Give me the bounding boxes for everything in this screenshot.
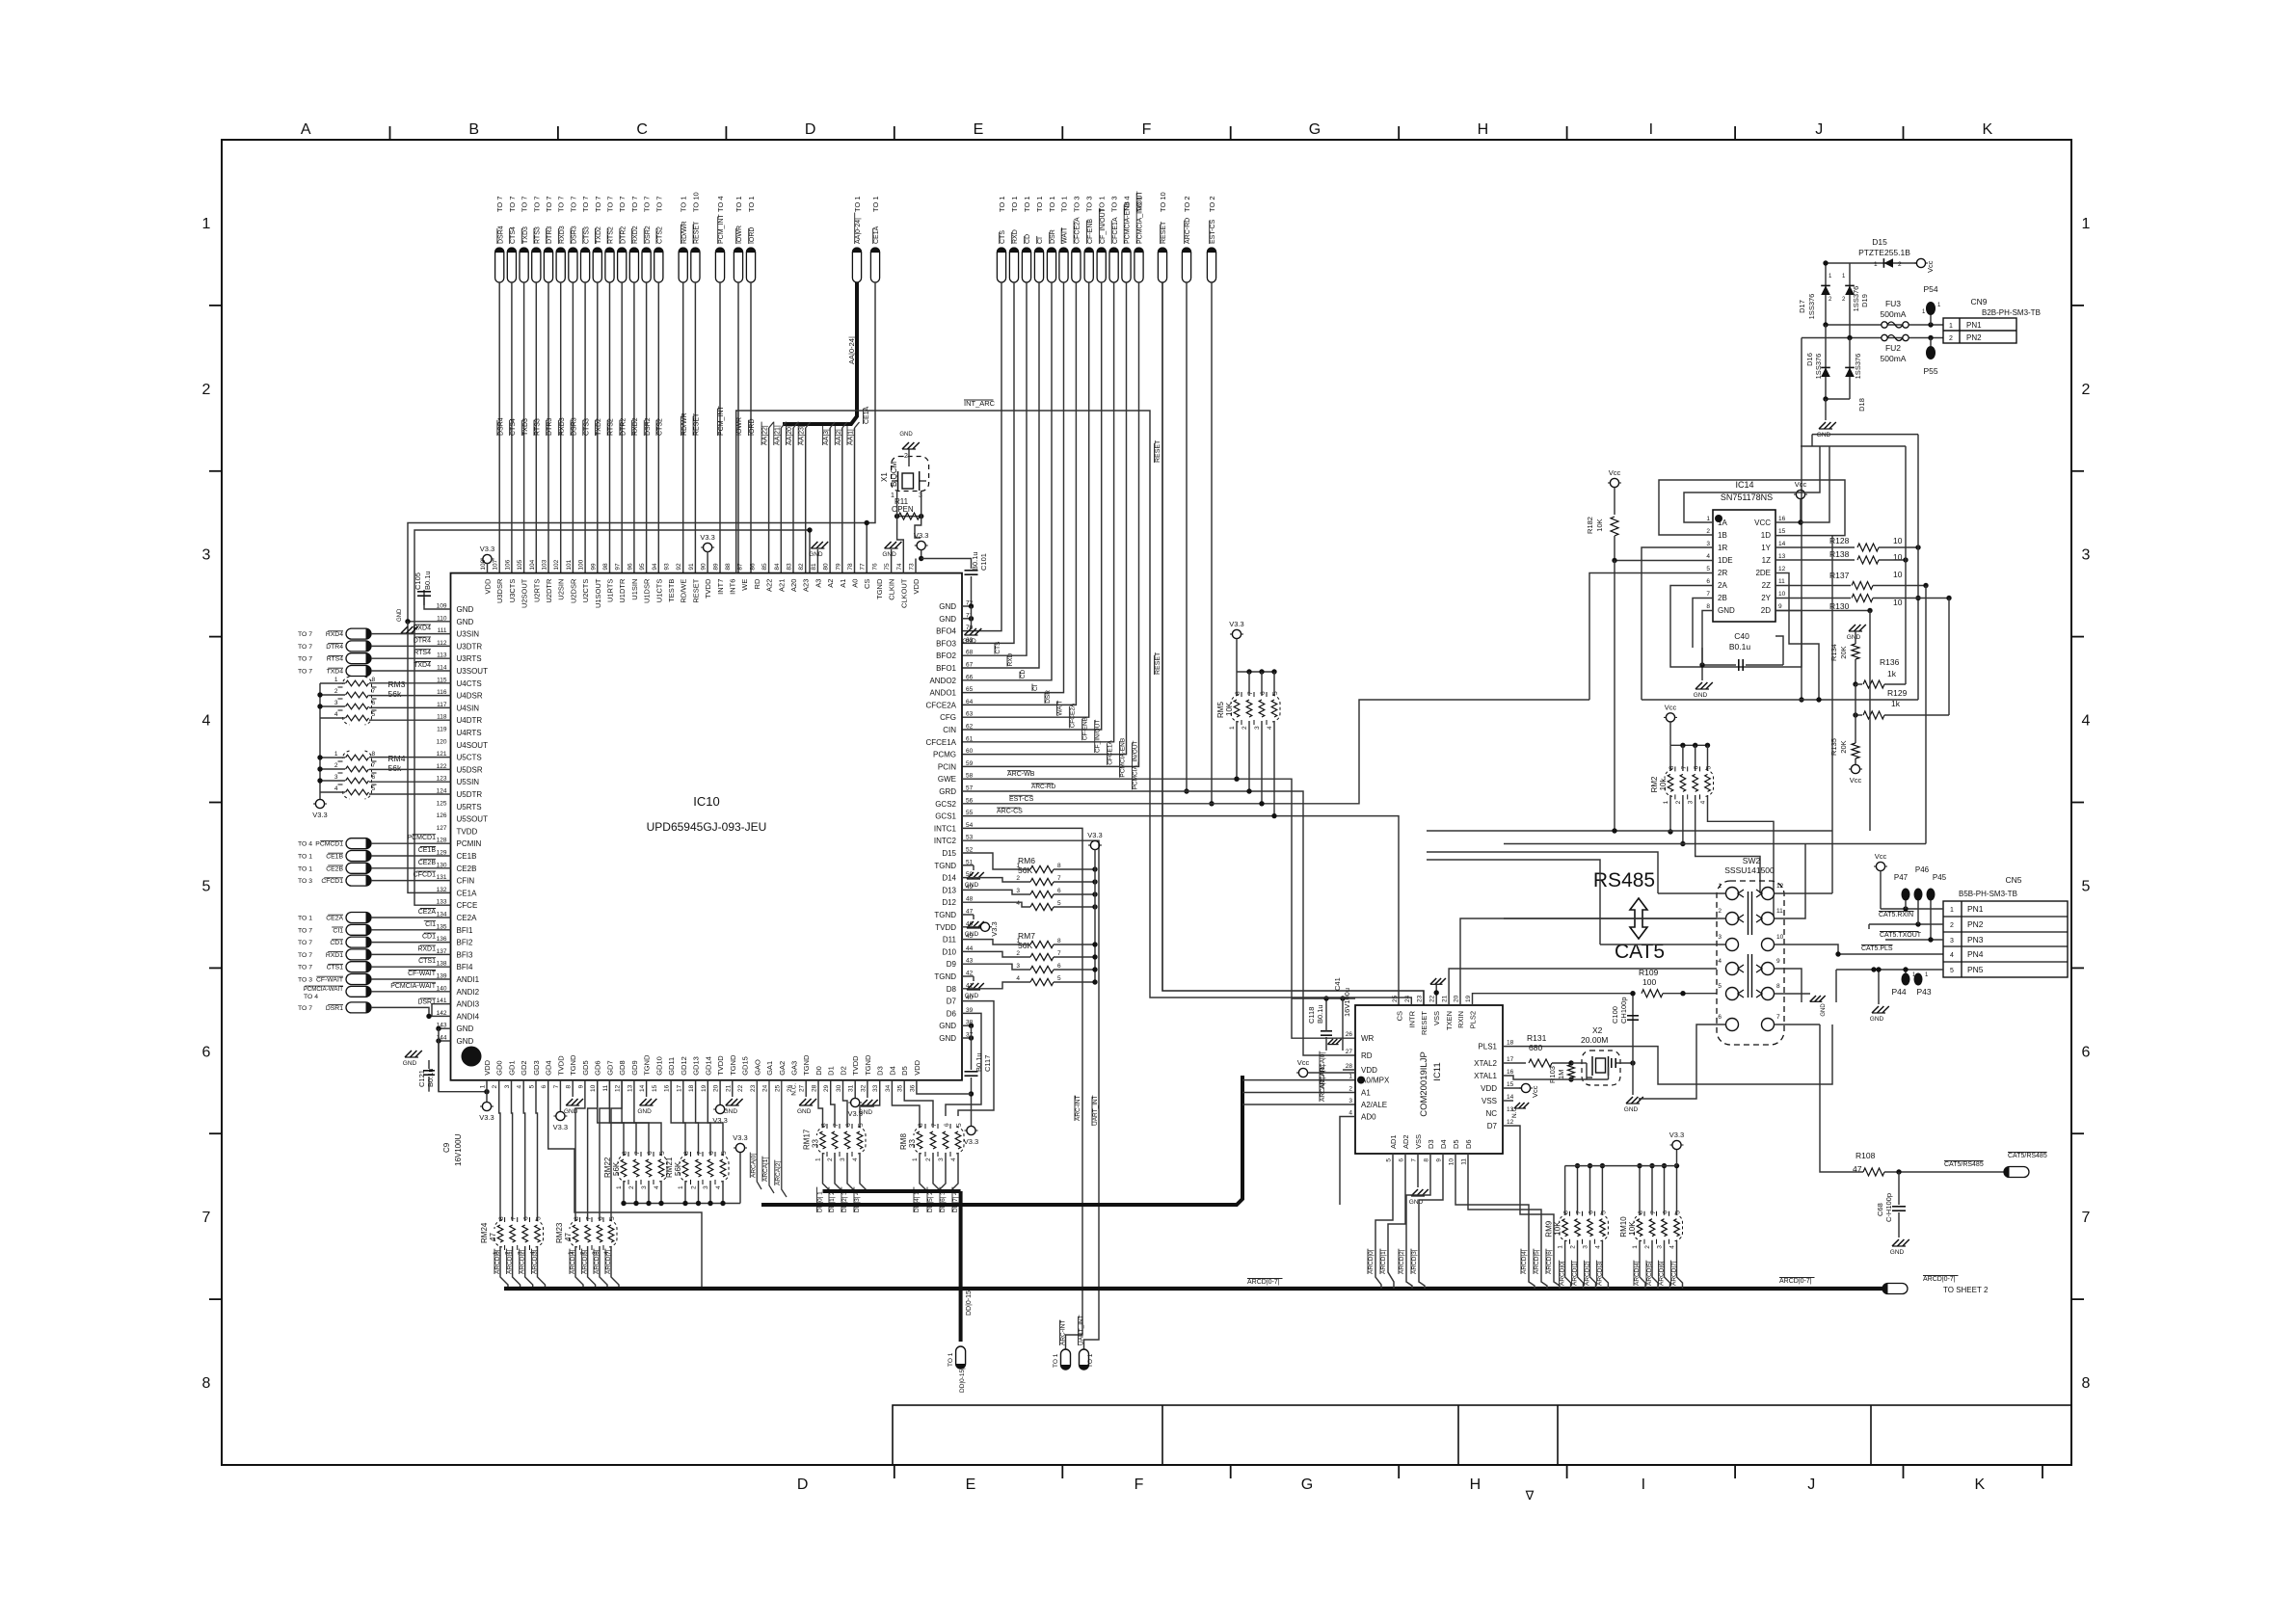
svg-text:3: 3 bbox=[1016, 963, 1020, 970]
title block bbox=[893, 1405, 2071, 1465]
wire CN5 PN1 bbox=[1881, 908, 1943, 910]
power VCC below R135 bbox=[1851, 764, 1859, 773]
ground below X2 caps bbox=[1626, 1097, 1633, 1104]
wire D15-D12 to RM6 bbox=[962, 853, 1030, 869]
wire bbox=[499, 1080, 500, 1221]
svg-text:4: 4 bbox=[654, 1185, 660, 1189]
svg-text:3: 3 bbox=[202, 547, 211, 564]
svg-text:CAT5/RS485: CAT5/RS485 bbox=[1944, 1161, 1984, 1168]
svg-text:U1CTS: U1CTS bbox=[654, 579, 663, 603]
svg-text:47: 47 bbox=[564, 1233, 573, 1241]
svg-text:TO 7: TO 7 bbox=[654, 196, 663, 212]
svg-text:11: 11 bbox=[1778, 578, 1785, 585]
power V3.3 at pin 46 TVDD bbox=[962, 926, 979, 928]
svg-text:3: 3 bbox=[504, 1084, 511, 1088]
ground right of SW2 row5 bbox=[1810, 996, 1816, 1001]
node P55 bbox=[1926, 346, 1936, 359]
svg-text:64: 64 bbox=[966, 699, 974, 705]
svg-text:1DE: 1DE bbox=[1718, 556, 1733, 565]
svg-text:D16: D16 bbox=[1805, 353, 1814, 366]
ground at IC11 pin 7 VSS bbox=[1417, 1154, 1419, 1187]
svg-text:TO 7: TO 7 bbox=[298, 669, 312, 676]
svg-text:94: 94 bbox=[652, 563, 658, 571]
svg-text:TO 1: TO 1 bbox=[853, 196, 862, 212]
svg-text:TO 4: TO 4 bbox=[298, 841, 312, 848]
svg-text:GD12: GD12 bbox=[680, 1056, 688, 1076]
svg-text:Vcc: Vcc bbox=[1665, 703, 1677, 711]
wire GD4 long route bbox=[548, 1080, 702, 1289]
svg-text:R135: R135 bbox=[1829, 738, 1838, 756]
svg-text:CFCE2A: CFCE2A bbox=[1075, 217, 1081, 244]
svg-text:CF_IN/OUT: CF_IN/OUT bbox=[1095, 720, 1102, 753]
svg-text:GND: GND bbox=[882, 551, 896, 558]
node CE2B stub (TO 1) bbox=[346, 863, 371, 873]
svg-text:AA|0-24|: AA|0-24| bbox=[847, 336, 856, 364]
svg-text:GD1: GD1 bbox=[508, 1060, 517, 1075]
svg-text:PCMCD1: PCMCD1 bbox=[315, 841, 343, 848]
svg-text:DSR3: DSR3 bbox=[572, 417, 578, 436]
svg-text:8: 8 bbox=[1235, 691, 1241, 695]
svg-text:105: 105 bbox=[517, 559, 523, 570]
svg-text:4: 4 bbox=[1718, 958, 1722, 965]
svg-text:B0.1u: B0.1u bbox=[971, 551, 979, 571]
wire RM2 col4 bbox=[1708, 795, 1775, 918]
svg-text:100: 100 bbox=[578, 559, 585, 570]
svg-text:2: 2 bbox=[925, 1157, 932, 1161]
svg-text:96: 96 bbox=[627, 563, 633, 571]
svg-text:∇: ∇ bbox=[1525, 1488, 1535, 1503]
wire bbox=[371, 917, 451, 918]
svg-text:ARCA|1|: ARCA|1| bbox=[762, 1157, 769, 1182]
capacitor C105 B0.1u bbox=[424, 590, 451, 609]
svg-text:GD7: GD7 bbox=[605, 1060, 614, 1075]
wire X1 pin1 to CLKIN bbox=[896, 491, 898, 517]
svg-text:23: 23 bbox=[1417, 995, 1424, 1002]
svg-text:GD0: GD0 bbox=[495, 1060, 504, 1075]
svg-text:CTS2: CTS2 bbox=[657, 418, 664, 436]
svg-text:D4: D4 bbox=[888, 1066, 896, 1076]
svg-text:4: 4 bbox=[1669, 1245, 1676, 1249]
svg-text:2A: 2A bbox=[1718, 581, 1727, 590]
svg-text:RM10: RM10 bbox=[1619, 1216, 1628, 1237]
svg-text:19: 19 bbox=[701, 1084, 707, 1092]
svg-text:1: 1 bbox=[1706, 516, 1710, 522]
wire ARCA2 to IC11 A2 bbox=[1242, 1104, 1355, 1105]
svg-text:SSSU141500: SSSU141500 bbox=[1724, 865, 1775, 875]
svg-text:19: 19 bbox=[1465, 995, 1472, 1002]
svg-text:RTS2: RTS2 bbox=[608, 418, 615, 436]
node CFCE1A off-page stub (TO 3) bbox=[1109, 248, 1118, 282]
wire GRD / ARC-RD to IC11 RD bbox=[962, 791, 1355, 1055]
node CF-WAIT stub (TO 3) bbox=[346, 974, 371, 985]
svg-text:84: 84 bbox=[774, 563, 781, 571]
svg-text:1Y: 1Y bbox=[1761, 544, 1771, 552]
svg-text:ANDI1: ANDI1 bbox=[457, 975, 480, 984]
svg-text:2: 2 bbox=[1241, 726, 1248, 730]
node RXD off-page stub (TO 1) bbox=[1009, 248, 1018, 282]
node CE1A off-page stub (TO 1) bbox=[870, 248, 879, 282]
svg-text:15: 15 bbox=[1778, 528, 1786, 535]
wire DD(0) bbox=[823, 1153, 831, 1191]
svg-text:TO 7: TO 7 bbox=[298, 940, 312, 946]
wire bbox=[622, 1080, 649, 1156]
svg-text:6: 6 bbox=[845, 1123, 852, 1127]
svg-text:CTS3: CTS3 bbox=[583, 226, 590, 244]
svg-text:93: 93 bbox=[664, 563, 671, 571]
svg-text:TO 1: TO 1 bbox=[871, 196, 880, 212]
svg-text:11: 11 bbox=[602, 1084, 609, 1091]
resistor network RM9 10K bbox=[1562, 1219, 1568, 1237]
svg-text:89: 89 bbox=[712, 563, 719, 571]
svg-text:GND: GND bbox=[797, 1108, 812, 1115]
svg-text:RXIN: RXIN bbox=[1456, 1011, 1465, 1028]
svg-text:13: 13 bbox=[1778, 553, 1786, 560]
svg-text:RXD3: RXD3 bbox=[559, 417, 566, 436]
wire EST-CS bbox=[1211, 282, 1213, 804]
wire 1D to SW2 row12 bbox=[1831, 536, 1833, 831]
svg-text:76: 76 bbox=[871, 563, 878, 571]
svg-text:GD4: GD4 bbox=[545, 1060, 553, 1075]
svg-text:VDD: VDD bbox=[484, 578, 493, 594]
svg-text:12: 12 bbox=[1778, 566, 1786, 572]
svg-text:TO 1: TO 1 bbox=[998, 196, 1006, 212]
svg-text:2: 2 bbox=[1644, 1245, 1651, 1249]
svg-text:TGND: TGND bbox=[569, 1054, 577, 1076]
svg-text:TVDD: TVDD bbox=[704, 578, 712, 599]
svg-text:5: 5 bbox=[721, 1151, 728, 1155]
wire bbox=[646, 282, 648, 573]
bus ARCA(0-2) bbox=[757, 1080, 761, 1189]
svg-text:F: F bbox=[1135, 1477, 1144, 1493]
wire RM2 col3 bbox=[1695, 795, 1760, 893]
wire bbox=[588, 1080, 598, 1221]
wire SW2 centre bars bbox=[1748, 891, 1749, 935]
svg-text:RXD2: RXD2 bbox=[632, 226, 639, 244]
svg-text:C-H100p: C-H100p bbox=[1884, 1193, 1893, 1222]
svg-text:TO 7: TO 7 bbox=[643, 196, 652, 212]
svg-text:GND: GND bbox=[1624, 1106, 1639, 1113]
svg-text:8: 8 bbox=[1057, 938, 1061, 945]
svg-text:DTR2: DTR2 bbox=[620, 418, 627, 436]
wire crystal ground leg bbox=[1632, 994, 1634, 1095]
svg-text:A2: A2 bbox=[826, 579, 835, 588]
svg-text:25: 25 bbox=[774, 1084, 781, 1092]
svg-text:PLS2: PLS2 bbox=[1469, 1011, 1478, 1028]
svg-text:GND: GND bbox=[939, 1022, 956, 1030]
svg-text:U5CTS: U5CTS bbox=[457, 754, 482, 762]
power V3.3 for RM22/RM21 bbox=[735, 1143, 744, 1152]
wire bbox=[371, 953, 451, 955]
svg-text:I: I bbox=[1649, 121, 1653, 138]
svg-text:TO 7: TO 7 bbox=[298, 644, 312, 651]
svg-text:22: 22 bbox=[737, 1084, 744, 1092]
svg-text:5: 5 bbox=[1718, 983, 1722, 990]
svg-text:1: 1 bbox=[1016, 863, 1020, 869]
svg-text:V3.3: V3.3 bbox=[964, 1137, 978, 1146]
svg-text:V3.3: V3.3 bbox=[1229, 620, 1243, 628]
svg-text:1: 1 bbox=[334, 677, 338, 683]
svg-text:3: 3 bbox=[1706, 541, 1710, 547]
resistor network RM5 10K bbox=[1232, 629, 1241, 638]
svg-text:1: 1 bbox=[1632, 1245, 1639, 1249]
svg-text:CTS2: CTS2 bbox=[657, 226, 664, 244]
svg-text:C118: C118 bbox=[1307, 1007, 1316, 1024]
wire SW2 row11/12 right bbox=[1775, 844, 1806, 919]
wire bbox=[1676, 1166, 1678, 1215]
svg-text:AA|2|: AA|2| bbox=[836, 429, 842, 445]
svg-text:27: 27 bbox=[1346, 1049, 1353, 1055]
wire AD0 to bus bbox=[1340, 1117, 1355, 1206]
svg-text:10: 10 bbox=[1893, 598, 1903, 607]
wire ARC-RD bbox=[1186, 282, 1188, 791]
svg-text:10: 10 bbox=[1449, 1158, 1455, 1166]
svg-text:GD13: GD13 bbox=[692, 1056, 701, 1076]
svg-text:ARC-RD: ARC-RD bbox=[1031, 784, 1056, 790]
svg-text:TO 1: TO 1 bbox=[1060, 196, 1069, 212]
svg-text:2: 2 bbox=[1016, 950, 1020, 957]
wire RXIN bbox=[1460, 918, 1717, 1005]
svg-text:4: 4 bbox=[715, 1185, 722, 1189]
svg-text:5: 5 bbox=[1675, 1211, 1682, 1214]
svg-text:TO 3: TO 3 bbox=[298, 878, 312, 885]
svg-text:ARCD|5|: ARCD|5| bbox=[582, 1249, 589, 1274]
wire CF_IN/OUT bbox=[962, 282, 1102, 730]
svg-text:CAT5/RS485: CAT5/RS485 bbox=[2008, 1153, 2047, 1159]
svg-text:INTR: INTR bbox=[1407, 1010, 1416, 1027]
svg-text:2R: 2R bbox=[1718, 569, 1727, 577]
wire DD(5) bbox=[933, 1153, 941, 1191]
svg-text:ARCD|2|: ARCD|2| bbox=[1585, 1261, 1591, 1286]
wire bbox=[511, 282, 513, 573]
capacitor C117 B0.1u bbox=[965, 1071, 978, 1073]
svg-text:10K: 10K bbox=[1225, 702, 1234, 716]
wire GND pins 72/71 bbox=[962, 605, 972, 607]
svg-text:127: 127 bbox=[437, 825, 447, 832]
wire GND rail to V3.3 at pin1 bbox=[439, 1041, 487, 1092]
svg-text:TO 7: TO 7 bbox=[581, 196, 590, 212]
power VCC at IC14 bbox=[1796, 490, 1804, 498]
wire ARCD(5) bbox=[588, 1246, 596, 1289]
svg-text:CE1B: CE1B bbox=[457, 852, 477, 861]
wire bbox=[1577, 1166, 1579, 1215]
svg-text:78: 78 bbox=[847, 563, 854, 571]
svg-text:TO 1: TO 1 bbox=[298, 865, 312, 872]
svg-text:D15: D15 bbox=[942, 849, 956, 858]
svg-text:H: H bbox=[1478, 121, 1489, 138]
svg-text:INTC2: INTC2 bbox=[934, 837, 957, 845]
svg-text:GND: GND bbox=[1718, 606, 1735, 615]
svg-text:RD/WE: RD/WE bbox=[680, 579, 688, 603]
svg-text:ARC-WB: ARC-WB bbox=[1007, 771, 1035, 778]
svg-text:7: 7 bbox=[1681, 765, 1688, 769]
svg-text:CFCE2A: CFCE2A bbox=[1069, 703, 1076, 728]
svg-text:4: 4 bbox=[1016, 975, 1020, 982]
svg-text:8: 8 bbox=[202, 1375, 211, 1392]
svg-text:B5B-PH-SM3-TB: B5B-PH-SM3-TB bbox=[1959, 890, 2017, 898]
svg-text:P44: P44 bbox=[1891, 987, 1906, 997]
svg-text:20K: 20K bbox=[1839, 740, 1848, 753]
wire ARCD(3) bbox=[538, 1246, 546, 1289]
svg-text:10K: 10K bbox=[1554, 1221, 1562, 1236]
svg-text:8: 8 bbox=[574, 1216, 580, 1220]
svg-text:100: 100 bbox=[1642, 977, 1656, 987]
svg-text:R134: R134 bbox=[1829, 644, 1838, 661]
svg-text:81: 81 bbox=[811, 563, 817, 571]
svg-text:U3SIN: U3SIN bbox=[457, 630, 480, 639]
node DSR1 stub (TO 7) bbox=[346, 1002, 371, 1013]
node DTR3 off-page stub (TO 7) bbox=[544, 248, 552, 282]
svg-text:ARCD|0-7|: ARCD|0-7| bbox=[1247, 1279, 1280, 1286]
svg-text:RXD1: RXD1 bbox=[417, 945, 436, 952]
svg-text:RM17: RM17 bbox=[803, 1129, 812, 1150]
svg-text:PLS1: PLS1 bbox=[1478, 1043, 1497, 1051]
svg-text:X1: X1 bbox=[880, 472, 889, 482]
svg-text:TO 7: TO 7 bbox=[298, 927, 312, 934]
svg-text:18: 18 bbox=[1507, 1040, 1514, 1047]
svg-text:126: 126 bbox=[437, 812, 447, 819]
wire bbox=[371, 966, 451, 968]
wire bbox=[1639, 1166, 1641, 1215]
svg-text:4: 4 bbox=[1267, 726, 1273, 730]
wire RM5 pulldowns to control nets bbox=[1236, 721, 1238, 779]
svg-text:TO 7: TO 7 bbox=[508, 196, 517, 212]
svg-text:GND: GND bbox=[457, 605, 474, 614]
wire VDD pin36 bbox=[917, 1080, 972, 1094]
svg-text:7: 7 bbox=[1057, 950, 1061, 957]
svg-text:D5: D5 bbox=[1452, 1139, 1460, 1149]
svg-text:GND: GND bbox=[962, 638, 976, 645]
svg-text:33: 33 bbox=[908, 1139, 917, 1148]
svg-text:GND: GND bbox=[939, 1034, 956, 1043]
svg-text:RM4: RM4 bbox=[388, 754, 406, 763]
wire diode commons bbox=[1826, 398, 1850, 400]
svg-text:D2: D2 bbox=[840, 1066, 848, 1076]
svg-text:V3.3: V3.3 bbox=[480, 545, 494, 553]
svg-text:6: 6 bbox=[1694, 765, 1700, 769]
svg-text:RXD4: RXD4 bbox=[413, 625, 431, 632]
svg-text:CTS3: CTS3 bbox=[583, 418, 590, 436]
svg-text:3: 3 bbox=[1348, 1098, 1352, 1104]
svg-text:PCMIN: PCMIN bbox=[457, 839, 482, 848]
svg-text:U5SIN: U5SIN bbox=[457, 778, 480, 786]
wire bbox=[371, 1007, 451, 1016]
svg-text:16V100U: 16V100U bbox=[454, 1133, 463, 1166]
svg-text:1: 1 bbox=[1016, 938, 1020, 945]
ground GND at IC10 pins 109/110 bbox=[408, 621, 451, 623]
svg-text:62: 62 bbox=[966, 724, 974, 731]
svg-text:CD: CD bbox=[1025, 234, 1031, 244]
svg-text:98: 98 bbox=[602, 563, 609, 571]
svg-text:4: 4 bbox=[334, 711, 338, 718]
wire ARCD(2) bbox=[525, 1246, 533, 1289]
power V3.3 at pin 20 TVDD bbox=[719, 1080, 721, 1104]
svg-text:7: 7 bbox=[2082, 1210, 2091, 1226]
wire SW2 row4/5/6 right bbox=[1775, 969, 1802, 1002]
svg-text:DSR4: DSR4 bbox=[497, 417, 504, 436]
wire CFCE2A bbox=[962, 282, 1076, 705]
wire ARCD(4) bbox=[575, 1246, 583, 1289]
svg-text:CFCE1A: CFCE1A bbox=[925, 738, 956, 747]
svg-text:PCMCIA-WAIT: PCMCIA-WAIT bbox=[390, 983, 437, 990]
svg-text:101: 101 bbox=[566, 559, 573, 570]
svg-text:N.C.: N.C. bbox=[791, 1083, 798, 1096]
svg-text:3: 3 bbox=[840, 1157, 846, 1161]
wire CI bbox=[962, 282, 1039, 668]
node DSR2 off-page stub (TO 7) bbox=[642, 248, 651, 282]
svg-text:A3: A3 bbox=[814, 579, 822, 588]
svg-text:6: 6 bbox=[372, 774, 376, 781]
svg-text:CFCE1A: CFCE1A bbox=[1108, 739, 1114, 764]
svg-text:RXD3: RXD3 bbox=[559, 226, 566, 244]
svg-text:CFCE2A: CFCE2A bbox=[925, 701, 956, 709]
node ARC-INT off-page stub (TO 1) bbox=[1061, 1349, 1071, 1370]
node CF-ENB off-page stub (TO 3) bbox=[1084, 248, 1093, 282]
svg-text:18: 18 bbox=[688, 1084, 695, 1092]
svg-text:DTR2: DTR2 bbox=[620, 226, 627, 244]
resistor network RM10 10K bbox=[1637, 1219, 1642, 1237]
svg-text:TO 1: TO 1 bbox=[734, 196, 743, 212]
svg-text:PCIN: PCIN bbox=[938, 762, 956, 771]
svg-text:ARCD|3|: ARCD|3| bbox=[1411, 1249, 1418, 1274]
svg-text:2: 2 bbox=[1949, 335, 1953, 342]
power VCC right of D15 bbox=[1916, 258, 1925, 267]
svg-text:B0.1u: B0.1u bbox=[1729, 642, 1750, 652]
svg-text:3: 3 bbox=[641, 1185, 648, 1189]
svg-text:D3: D3 bbox=[1427, 1139, 1435, 1149]
svg-text:BFI1: BFI1 bbox=[457, 926, 473, 935]
svg-text:6: 6 bbox=[1399, 1158, 1405, 1162]
wire 1A loop bbox=[1684, 446, 1820, 522]
svg-text:RM24: RM24 bbox=[480, 1222, 489, 1243]
wire RM6 commons to V3.3 rail bbox=[1054, 868, 1095, 870]
svg-text:28: 28 bbox=[812, 1084, 818, 1092]
wire SW2 row10 to CN5 PN4 bbox=[1775, 945, 1944, 954]
wire 2D bbox=[1775, 610, 1870, 612]
svg-text:CTS4: CTS4 bbox=[510, 226, 517, 244]
wire bbox=[572, 282, 574, 573]
svg-text:28: 28 bbox=[1346, 1063, 1353, 1070]
svg-text:2: 2 bbox=[202, 382, 211, 398]
svg-text:CE2B: CE2B bbox=[418, 860, 437, 866]
svg-text:4: 4 bbox=[1348, 1110, 1352, 1117]
svg-text:V3.3: V3.3 bbox=[700, 533, 714, 542]
svg-text:TGND: TGND bbox=[643, 1054, 652, 1076]
svg-text:D15: D15 bbox=[1872, 237, 1887, 247]
svg-text:68: 68 bbox=[966, 650, 974, 656]
svg-text:WR: WR bbox=[1361, 1034, 1375, 1043]
wire TXEN to SW2 bbox=[1449, 969, 1717, 1005]
svg-text:TO 7: TO 7 bbox=[298, 656, 312, 663]
svg-text:56K: 56K bbox=[1018, 865, 1032, 875]
svg-text:DD|7| 4: DD|7| 4 bbox=[952, 1191, 959, 1212]
svg-text:2: 2 bbox=[691, 1185, 698, 1189]
svg-text:P46: P46 bbox=[1915, 865, 1930, 874]
wire PLS2 via R109 bbox=[1473, 994, 1634, 1005]
svg-text:TO 3: TO 3 bbox=[298, 977, 312, 984]
svg-text:TO 7: TO 7 bbox=[557, 196, 566, 212]
svg-text:A2/ALE: A2/ALE bbox=[1361, 1101, 1387, 1109]
svg-text:4: 4 bbox=[852, 1157, 859, 1161]
wire bbox=[1589, 1166, 1591, 1215]
resistor network RM4 56K bbox=[346, 755, 369, 760]
svg-text:CE2A: CE2A bbox=[326, 916, 343, 922]
svg-text:23: 23 bbox=[750, 1084, 757, 1092]
ground at pin 14 TGND bbox=[646, 1080, 648, 1097]
svg-text:30: 30 bbox=[836, 1084, 842, 1092]
svg-text:10: 10 bbox=[1893, 570, 1903, 579]
svg-text:AA|22|: AA|22| bbox=[762, 425, 769, 445]
svg-text:DTR4: DTR4 bbox=[414, 637, 431, 644]
